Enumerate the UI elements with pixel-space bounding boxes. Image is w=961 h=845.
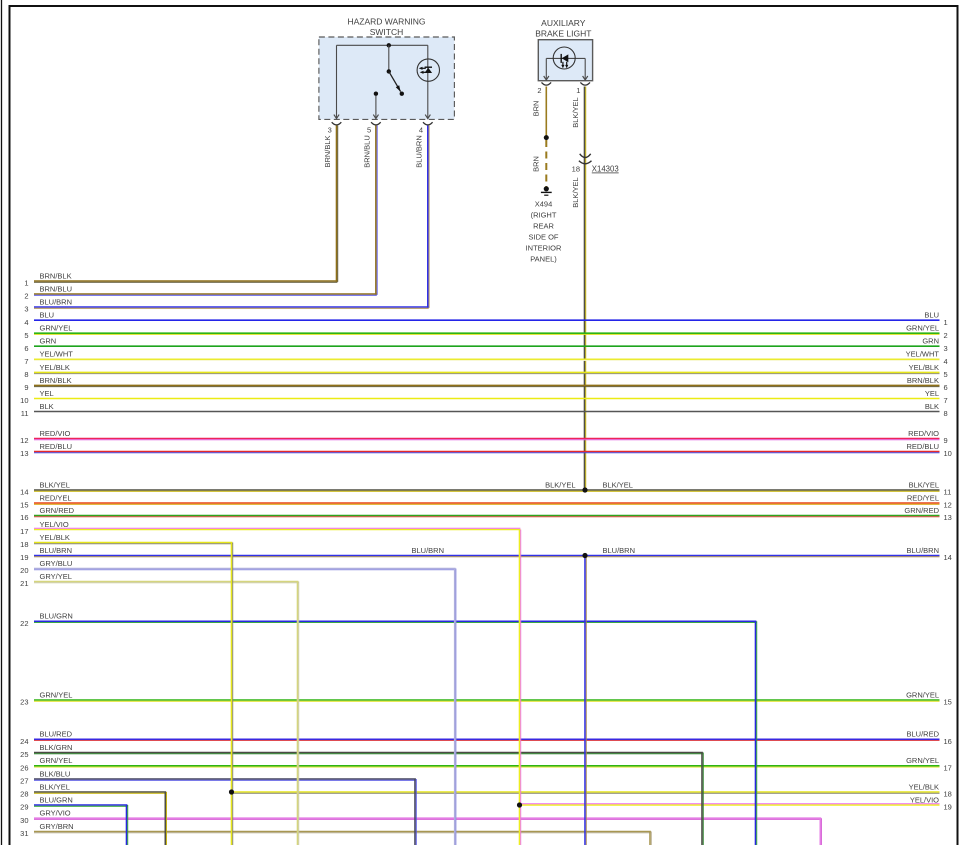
svg-text:GRN/RED: GRN/RED [40,506,75,515]
svg-text:17: 17 [944,763,952,772]
svg-text:BRN/BLK: BRN/BLK [907,376,939,385]
wire BLK/YEL row 14 [20,480,951,496]
svg-text:YEL/WHT: YEL/WHT [906,350,940,359]
svg-text:2: 2 [24,292,28,301]
hazard warning switch S1 title [347,17,425,38]
svg-text:REAR: REAR [533,222,554,231]
svg-text:GRN/YEL: GRN/YEL [906,756,939,765]
wire BRN dashed to ground [545,140,547,187]
svg-text:YEL/BLK: YEL/BLK [909,782,939,791]
svg-text:11: 11 [21,409,29,418]
switch fixed contact for pin 5 [374,92,378,96]
svg-text:(RIGHT: (RIGHT [531,211,557,220]
svg-text:3: 3 [328,125,332,134]
wire RED/BLU row 13 [20,442,952,458]
wire BLK/YEL row 28 [20,782,166,798]
svg-text:GRN/RED: GRN/RED [904,506,939,515]
svg-text:BLU/RED: BLU/RED [906,730,939,739]
svg-text:8: 8 [24,370,28,379]
svg-text:YEL/WHT: YEL/WHT [40,350,74,359]
svg-text:RED/VIO: RED/VIO [908,429,939,438]
wire BLU/BRN vertical drop at x=585 [584,556,586,845]
svg-text:19: 19 [20,553,28,562]
svg-text:SWITCH: SWITCH [370,27,404,37]
junction on internal top bus [387,43,391,47]
svg-text:1: 1 [576,86,580,95]
svg-text:12: 12 [944,501,952,510]
svg-text:GRN: GRN [40,337,57,346]
svg-text:29: 29 [20,803,28,812]
svg-text:BRAKE LIGHT: BRAKE LIGHT [535,29,591,39]
wire GRN/YEL row 5 [24,324,947,340]
svg-text:28: 28 [20,790,28,799]
svg-text:14: 14 [20,488,28,497]
svg-text:YEL: YEL [925,389,939,398]
svg-text:RED/VIO: RED/VIO [40,429,71,438]
svg-text:BLK/YEL: BLK/YEL [40,782,70,791]
indicator LED symbol (triangle up, bar, two left arrows) [419,67,432,74]
ground symbol X494 [541,186,552,195]
svg-text:10: 10 [20,396,28,405]
svg-text:19: 19 [944,803,952,812]
svg-text:5: 5 [367,125,371,134]
svg-text:13: 13 [944,513,952,522]
wire YEL/VIO vertical drop at x=519.5 [519,530,521,845]
ground label X494 (RIGHT REAR SIDE OF INTERIOR PANEL) [526,200,562,264]
svg-text:BLK/BLU: BLK/BLU [40,769,71,778]
svg-text:5: 5 [944,370,948,379]
wire BLU/GRN row 22 [20,612,756,628]
wire YEL/VIO row 17 [20,520,520,536]
wire YEL/BLK branch to right pin 18 [232,782,952,798]
svg-text:YEL: YEL [40,389,54,398]
svg-text:YEL/VIO: YEL/VIO [910,795,939,804]
wire YEL/WHT row 7 [24,350,947,366]
svg-text:GRY/BLU: GRY/BLU [40,559,73,568]
auxiliary brake light box [538,40,592,81]
border: inner frame right line [957,5,959,845]
svg-text:10: 10 [944,449,952,458]
svg-text:BRN/BLK: BRN/BLK [40,271,72,280]
svg-text:BRN/BLK: BRN/BLK [323,135,332,167]
wire BRN/BLK row 1 [24,271,337,287]
svg-text:BLK/YEL: BLK/YEL [909,480,939,489]
svg-text:15: 15 [944,698,952,707]
svg-text:GRN/YEL: GRN/YEL [40,756,73,765]
wire BRN/BLU row 2 [24,284,376,300]
svg-text:18: 18 [572,165,580,174]
svg-text:GRN/YEL: GRN/YEL [40,690,73,699]
svg-text:BLU/BRN: BLU/BRN [906,546,939,555]
wire BLK/GRN row 25 [20,743,703,759]
wire GRY/BRN vertical drop at x=650 [649,832,651,845]
indicator LED circle in switch [417,59,439,81]
svg-text:YEL/VIO: YEL/VIO [40,520,69,529]
wire BLU/RED row 24 [20,730,952,746]
wire: bus through indicator to pin 4 with arrow [425,45,430,118]
svg-text:4: 4 [944,357,948,366]
svg-text:BLK: BLK [40,402,54,411]
junction YEL/BLK vertical with right branch [229,789,234,794]
connector cup pin 5 [371,122,381,125]
svg-text:2: 2 [944,331,948,340]
wire BLU/BRN row 19 [20,546,952,562]
svg-text:BRN/BLK: BRN/BLK [40,376,72,385]
junction YEL/VIO vertical with right branch [517,802,522,807]
svg-text:18: 18 [20,540,28,549]
wire GRY/YEL vertical drop at x=297.5 [297,582,299,845]
hazard warning switch box [319,37,455,119]
wire RED/VIO row 12 [20,429,948,445]
svg-text:GRN/YEL: GRN/YEL [906,324,939,333]
svg-text:17: 17 [20,527,28,536]
wire: lamp to pin 2 with arrow [544,58,549,80]
svg-text:BLU/RED: BLU/RED [40,730,73,739]
svg-text:13: 13 [20,449,28,458]
svg-text:YEL/BLK: YEL/BLK [909,363,939,372]
svg-text:4: 4 [419,125,423,134]
svg-text:2: 2 [537,86,541,95]
svg-text:HAZARD WARNING: HAZARD WARNING [347,17,425,27]
svg-text:BLU: BLU [40,311,55,320]
wire YEL/VIO branch to right pin 19 [520,795,952,811]
svg-text:GRY/VIO: GRY/VIO [40,809,71,818]
border: inner frame left line [9,5,11,845]
svg-text:GRY/YEL: GRY/YEL [40,572,72,581]
svg-text:BLK/GRN: BLK/GRN [40,743,73,752]
wire BLU/BRN from switch pin 4 down [427,126,429,308]
connector cup pin 3 [332,122,342,125]
svg-text:14: 14 [944,553,952,562]
junction on BRN wire [544,135,549,140]
svg-text:PANEL): PANEL) [530,255,557,264]
svg-text:BRN: BRN [531,101,540,117]
svg-text:18: 18 [944,790,952,799]
svg-text:7: 7 [24,357,28,366]
wire: contact to pin 5 with arrow [373,96,378,119]
border: outer thin left edge line [1,0,3,845]
svg-text:3: 3 [944,344,948,353]
svg-text:11: 11 [944,488,952,497]
wire GRN row 6 [24,337,947,353]
wire YEL/BLK row 8 [24,363,947,379]
switch pivot contact [387,69,391,73]
svg-text:BLK/YEL: BLK/YEL [545,480,575,489]
auxiliary brake light E1 title [535,18,591,38]
wire GRY/VIO row 30 [20,809,821,825]
svg-text:26: 26 [20,763,28,772]
wire YEL/BLK row 18 [20,533,232,549]
svg-text:X494: X494 [535,200,553,209]
svg-text:GRY/BRN: GRY/BRN [40,822,74,831]
svg-text:X14303: X14303 [592,165,619,174]
svg-text:RED/YEL: RED/YEL [907,493,939,502]
wire GRY/BRN row 31 [20,822,651,838]
wire BLK/BLU vertical drop at x=415 [414,779,416,845]
svg-text:8: 8 [944,409,948,418]
svg-text:6: 6 [944,383,948,392]
wire GRN/YEL row 26 [20,756,952,772]
svg-text:21: 21 [20,579,28,588]
wire GRY/BLU row 20 [20,559,455,575]
svg-text:BLU/BRN: BLU/BRN [603,546,636,555]
inline connector 18 X14303 (arrow + cup) [579,154,592,164]
wire BLU/GRN vertical drop at x=126.5 [126,805,128,845]
svg-text:BLU/BRN: BLU/BRN [40,546,73,555]
svg-text:9: 9 [24,383,28,392]
svg-text:16: 16 [944,737,952,746]
wire BLK row 11 [21,402,948,418]
svg-text:30: 30 [20,816,28,825]
wire BLK/YEL from lamp pin 1 down to splice [584,87,586,491]
wire: bus to pin 3 with arrow [334,45,339,118]
wire GRY/VIO vertical drop at x=820.3 [819,818,821,845]
svg-text:1: 1 [944,318,948,327]
wire GRY/BLU vertical drop at x=454.7 [454,569,456,845]
svg-text:16: 16 [20,513,28,522]
switch blade (open) with arrowhead [389,71,404,96]
junction splice row 14 with BLK/YEL drop [582,487,587,492]
wire YEL/BLK vertical drop at x=231.5 [231,543,233,845]
wire BRN from lamp pin 2 [545,87,547,138]
wire BLU row 4 [24,311,947,327]
svg-text:4: 4 [24,318,28,327]
svg-text:7: 7 [944,396,948,405]
svg-text:BLU/GRN: BLU/GRN [40,612,73,621]
lamp circle [553,47,575,69]
wire: switch internal top bus [337,44,428,46]
wire BLK/BLU row 27 [20,769,416,785]
svg-text:YEL/BLK: YEL/BLK [40,363,70,372]
svg-text:BLK/YEL: BLK/YEL [40,480,70,489]
lamp LED symbol (triangle left, bar, two down arrows) [561,54,568,68]
connector cup pin 4 [423,122,433,125]
svg-text:INTERIOR: INTERIOR [526,244,562,253]
svg-text:YEL/BLK: YEL/BLK [40,533,70,542]
wire GRN/RED row 16 [20,506,952,522]
svg-text:5: 5 [24,331,28,340]
svg-text:BLK: BLK [925,402,939,411]
svg-text:20: 20 [20,566,28,575]
svg-text:BRN/BLU: BRN/BLU [363,135,372,168]
svg-text:AUXILIARY: AUXILIARY [541,18,586,28]
wire: lamp internal bus [546,57,585,59]
border: inner frame top line [9,5,959,7]
svg-text:BLK/YEL: BLK/YEL [603,480,633,489]
svg-text:1: 1 [24,279,28,288]
svg-text:15: 15 [20,501,28,510]
svg-text:RED/BLU: RED/BLU [40,442,73,451]
wire: lamp to pin 1 with arrow [583,58,588,80]
svg-text:6: 6 [24,344,28,353]
svg-text:3: 3 [24,305,28,314]
svg-text:BLU/BRN: BLU/BRN [415,135,424,168]
svg-text:SIDE OF: SIDE OF [528,233,558,242]
wire BLK/GRN vertical drop at x=702 [701,753,703,845]
svg-text:GRN: GRN [922,337,939,346]
svg-text:BLK/YEL: BLK/YEL [571,97,580,127]
wire BLK/YEL vertical drop at x=165.3 [164,792,166,845]
svg-text:BLU/BRN: BLU/BRN [40,297,73,306]
svg-text:GRN/YEL: GRN/YEL [40,324,73,333]
wire BLU/GRN row 29 [20,795,127,811]
junction splice row 19 with BLU/BRN drop [582,553,587,558]
connector cup lamp pin 2 [542,82,552,85]
svg-text:9: 9 [944,436,948,445]
wire RED/YEL row 15 [20,493,952,509]
svg-text:23: 23 [20,698,28,707]
wire YEL row 10 [20,389,948,405]
wire GRN/YEL row 23 [20,690,952,706]
svg-text:BLK/YEL: BLK/YEL [571,177,580,207]
svg-text:GRN/YEL: GRN/YEL [906,690,939,699]
wire BRN/BLK from switch pin 3 down [336,126,338,282]
svg-text:BLU: BLU [924,311,939,320]
svg-text:BLU/BRN: BLU/BRN [411,546,444,555]
wire: switch common drop [388,45,390,71]
connector cup lamp pin 1 [580,82,590,85]
svg-text:BLU/GRN: BLU/GRN [40,795,73,804]
wire BLU/GRN vertical drop at x=755.5 [755,621,757,845]
svg-text:31: 31 [20,829,28,838]
wire BRN/BLK row 9 [24,376,947,392]
svg-text:12: 12 [20,436,28,445]
svg-text:RED/BLU: RED/BLU [906,442,939,451]
svg-text:24: 24 [20,737,28,746]
svg-text:BRN: BRN [531,156,540,172]
wire BLU/BRN row 3 [24,297,428,313]
svg-text:BRN/BLU: BRN/BLU [40,284,73,293]
svg-text:22: 22 [20,619,28,628]
svg-text:RED/YEL: RED/YEL [40,493,72,502]
svg-text:25: 25 [20,750,28,759]
svg-text:27: 27 [20,777,28,786]
wire GRY/YEL row 21 [20,572,298,588]
wire BRN/BLU from switch pin 5 down [375,126,377,295]
